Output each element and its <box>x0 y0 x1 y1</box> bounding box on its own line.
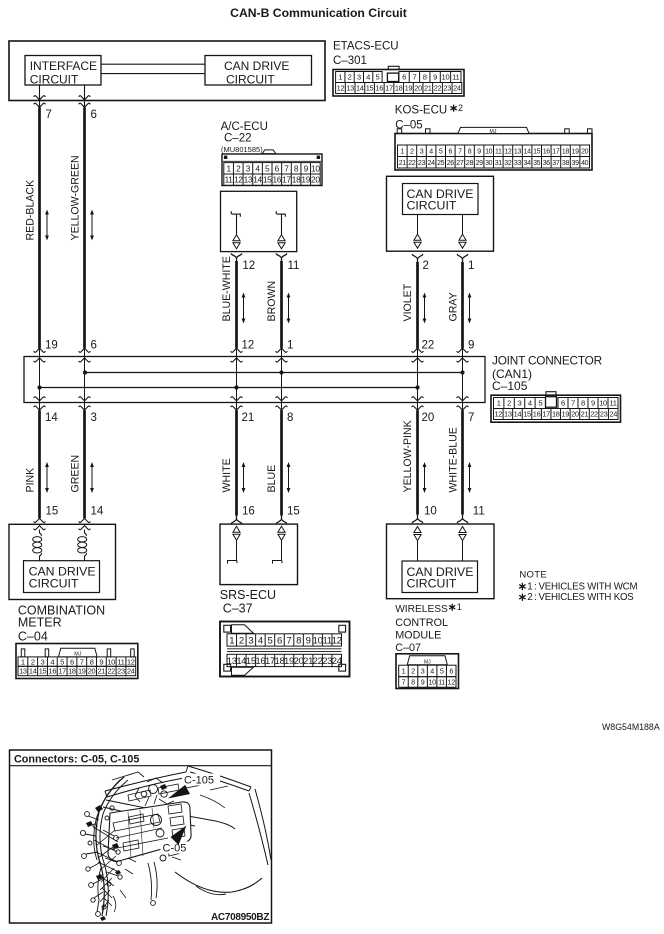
svg-text:9: 9 <box>477 148 481 155</box>
svg-text:KOS-ECU: KOS-ECU <box>395 105 447 117</box>
svg-text:34: 34 <box>524 160 532 167</box>
svg-text:6: 6 <box>70 657 74 666</box>
svg-text:28: 28 <box>466 160 474 167</box>
svg-text:3: 3 <box>357 73 361 82</box>
svg-text:17: 17 <box>58 667 66 676</box>
svg-text:7: 7 <box>571 399 575 408</box>
svg-text:5: 5 <box>375 73 379 82</box>
svg-text:8: 8 <box>90 657 94 666</box>
svg-text:METER: METER <box>18 616 62 630</box>
svg-text:12: 12 <box>337 84 345 93</box>
svg-text:19: 19 <box>301 175 310 185</box>
svg-text:2: 2 <box>239 635 244 646</box>
svg-text:19: 19 <box>78 667 86 676</box>
svg-text:23: 23 <box>600 410 608 419</box>
svg-text:2: 2 <box>236 163 241 173</box>
svg-text:11: 11 <box>438 678 445 687</box>
svg-text:12: 12 <box>242 340 255 352</box>
svg-text:22: 22 <box>434 84 442 93</box>
svg-text:8: 8 <box>296 635 301 646</box>
svg-text:2: 2 <box>507 399 511 408</box>
svg-text:20: 20 <box>571 410 579 419</box>
svg-text:WHITE: WHITE <box>221 458 233 492</box>
svg-text:10: 10 <box>485 148 493 155</box>
svg-text:17: 17 <box>542 410 550 419</box>
svg-text:14: 14 <box>253 175 262 185</box>
svg-text:4: 4 <box>255 163 260 173</box>
svg-text:9: 9 <box>306 635 311 646</box>
svg-text:WIRELESS: WIRELESS <box>395 604 448 615</box>
svg-text:(MU801585): (MU801585) <box>221 145 263 154</box>
svg-text:16: 16 <box>255 656 265 667</box>
svg-text:12: 12 <box>242 260 255 272</box>
svg-text:14: 14 <box>236 656 246 667</box>
svg-text:1: 1 <box>338 73 342 82</box>
svg-text:11: 11 <box>323 635 332 646</box>
svg-text:JOINT CONNECTOR: JOINT CONNECTOR <box>492 354 602 368</box>
svg-text:8: 8 <box>294 163 299 173</box>
svg-text:35: 35 <box>533 160 541 167</box>
svg-text:BLUE: BLUE <box>266 465 278 493</box>
svg-text:14: 14 <box>45 412 58 424</box>
svg-text:5: 5 <box>60 657 64 666</box>
svg-text:14: 14 <box>524 148 532 155</box>
svg-text:A/C-ECU: A/C-ECU <box>221 121 268 133</box>
svg-text:7: 7 <box>412 73 416 82</box>
svg-text:10: 10 <box>311 163 320 173</box>
svg-text:11: 11 <box>495 148 502 155</box>
svg-text:3: 3 <box>421 667 425 676</box>
svg-text:13: 13 <box>244 175 253 185</box>
svg-text:16: 16 <box>375 84 383 93</box>
svg-text:3: 3 <box>248 635 253 646</box>
svg-text:5: 5 <box>538 399 542 408</box>
svg-text:9: 9 <box>421 678 425 687</box>
svg-text:7: 7 <box>46 109 52 121</box>
svg-text:10: 10 <box>428 678 436 687</box>
svg-text:26: 26 <box>447 160 455 167</box>
svg-text:16: 16 <box>543 148 551 155</box>
svg-text:9: 9 <box>99 657 103 666</box>
svg-text:6: 6 <box>91 109 97 121</box>
svg-text:33: 33 <box>514 160 522 167</box>
svg-text:15: 15 <box>39 667 47 676</box>
svg-text:2: 2 <box>348 73 352 82</box>
svg-text:18: 18 <box>395 84 403 93</box>
svg-text:32: 32 <box>504 160 512 167</box>
svg-text:18: 18 <box>292 175 301 185</box>
svg-text:11: 11 <box>452 73 459 82</box>
svg-text:14: 14 <box>29 667 37 676</box>
svg-text:11: 11 <box>117 657 124 666</box>
svg-text:BROWN: BROWN <box>266 281 278 322</box>
svg-text:25: 25 <box>437 160 445 167</box>
svg-text:13: 13 <box>19 667 27 676</box>
svg-text:2: 2 <box>31 657 35 666</box>
svg-text:6: 6 <box>275 163 280 173</box>
svg-text:CIRCUIT: CIRCUIT <box>29 576 79 590</box>
svg-text:C–37: C–37 <box>223 602 253 616</box>
svg-text:C–05: C–05 <box>395 120 423 132</box>
svg-text:22: 22 <box>408 160 416 167</box>
svg-text:C–105: C–105 <box>492 379 528 393</box>
svg-text:CIRCUIT: CIRCUIT <box>226 73 275 87</box>
svg-text:ETACS-ECU: ETACS-ECU <box>333 41 399 53</box>
svg-text:21: 21 <box>242 412 255 424</box>
svg-text:17: 17 <box>265 656 275 667</box>
svg-text:20: 20 <box>294 656 304 667</box>
svg-text:YELLOW-GREEN: YELLOW-GREEN <box>69 155 81 240</box>
svg-text:14: 14 <box>91 506 104 518</box>
svg-text:MJ: MJ <box>490 129 497 135</box>
svg-text:3: 3 <box>518 399 522 408</box>
svg-text:BLUE-WHITE: BLUE-WHITE <box>221 256 233 321</box>
svg-text:13: 13 <box>227 656 237 667</box>
svg-text:17: 17 <box>552 148 560 155</box>
svg-text:8: 8 <box>287 412 293 424</box>
svg-text:7: 7 <box>458 148 462 155</box>
svg-text:16: 16 <box>533 410 541 419</box>
svg-text:29: 29 <box>476 160 484 167</box>
svg-text:11: 11 <box>225 175 234 185</box>
svg-text:23: 23 <box>322 656 332 667</box>
svg-text:20: 20 <box>88 667 96 676</box>
svg-text:12: 12 <box>127 657 135 666</box>
svg-text:WHITE-BLUE: WHITE-BLUE <box>447 427 459 492</box>
svg-text:18: 18 <box>562 148 570 155</box>
svg-text:12: 12 <box>234 175 243 185</box>
svg-text:2: 2 <box>458 103 463 113</box>
svg-text:17: 17 <box>385 84 393 93</box>
svg-text:30: 30 <box>485 160 493 167</box>
svg-text:13: 13 <box>504 410 512 419</box>
svg-text:23: 23 <box>418 160 426 167</box>
svg-text:C-105: C-105 <box>184 775 214 787</box>
svg-text:PINK: PINK <box>24 468 36 493</box>
svg-text:22: 22 <box>422 340 435 352</box>
svg-text:39: 39 <box>572 160 580 167</box>
svg-text:1: 1 <box>229 635 234 646</box>
svg-text:15: 15 <box>523 410 531 419</box>
svg-text:MJ: MJ <box>424 659 431 665</box>
svg-text:7: 7 <box>80 657 84 666</box>
svg-text:1: 1 <box>401 148 405 155</box>
svg-text:5: 5 <box>265 163 270 173</box>
svg-text:19: 19 <box>562 410 570 419</box>
svg-text:8: 8 <box>423 73 427 82</box>
svg-text:7: 7 <box>287 635 292 646</box>
svg-text:20: 20 <box>311 175 320 185</box>
svg-text:19: 19 <box>405 84 413 93</box>
svg-text:RED-BLACK: RED-BLACK <box>24 180 36 241</box>
svg-text:20: 20 <box>581 148 589 155</box>
svg-text:24: 24 <box>332 656 342 667</box>
svg-text:24: 24 <box>609 410 617 419</box>
svg-text:13: 13 <box>514 148 522 155</box>
svg-text:14: 14 <box>356 84 364 93</box>
svg-text:19: 19 <box>572 148 580 155</box>
svg-text:C-05: C-05 <box>163 843 187 855</box>
svg-text:GREEN: GREEN <box>69 455 81 493</box>
svg-text:1: 1 <box>457 602 462 612</box>
svg-text:31: 31 <box>495 160 503 167</box>
svg-text:CAN-B Communication Circuit: CAN-B Communication Circuit <box>230 6 407 20</box>
svg-text:21: 21 <box>581 410 589 419</box>
svg-text:3: 3 <box>91 412 97 424</box>
svg-text:21: 21 <box>399 160 407 167</box>
svg-text:40: 40 <box>581 160 589 167</box>
svg-text:11: 11 <box>288 260 300 272</box>
svg-text:2: 2 <box>411 667 415 676</box>
svg-text:22: 22 <box>313 656 323 667</box>
svg-text:CIRCUIT: CIRCUIT <box>407 198 457 212</box>
svg-text:11: 11 <box>609 399 616 408</box>
svg-text:1: 1 <box>497 399 501 408</box>
svg-text:20: 20 <box>414 84 422 93</box>
svg-text:22: 22 <box>590 410 598 419</box>
svg-text:6: 6 <box>277 635 282 646</box>
svg-text:36: 36 <box>543 160 551 167</box>
svg-text:1: 1 <box>287 340 293 352</box>
svg-text:YELLOW-PINK: YELLOW-PINK <box>402 420 414 492</box>
svg-text:9: 9 <box>433 73 437 82</box>
svg-text:7: 7 <box>284 163 289 173</box>
svg-text:10: 10 <box>313 635 323 646</box>
svg-text:CIRCUIT: CIRCUIT <box>30 73 79 87</box>
svg-text:24: 24 <box>127 667 135 676</box>
svg-text:MODULE: MODULE <box>395 630 441 642</box>
svg-text:15: 15 <box>246 656 256 667</box>
svg-text:14: 14 <box>514 410 522 419</box>
svg-text:15: 15 <box>46 506 59 518</box>
svg-text:12: 12 <box>494 410 502 419</box>
svg-text:GRAY: GRAY <box>447 292 459 321</box>
svg-text:9: 9 <box>468 340 474 352</box>
svg-text:21: 21 <box>424 84 432 93</box>
svg-text:VIOLET: VIOLET <box>402 283 414 321</box>
svg-text:8: 8 <box>581 399 585 408</box>
svg-text:16: 16 <box>272 175 281 185</box>
svg-text:10: 10 <box>599 399 607 408</box>
svg-text:8: 8 <box>411 678 415 687</box>
svg-text:5: 5 <box>440 667 444 676</box>
svg-text:C–22: C–22 <box>224 133 252 145</box>
svg-text:37: 37 <box>552 160 560 167</box>
svg-text:12: 12 <box>504 148 512 155</box>
svg-text:6: 6 <box>91 340 97 352</box>
svg-text:7: 7 <box>468 412 474 424</box>
svg-text:17: 17 <box>282 175 291 185</box>
svg-text:CONTROL: CONTROL <box>395 617 448 629</box>
svg-text:3: 3 <box>246 163 251 173</box>
svg-text:19: 19 <box>284 656 294 667</box>
svg-text:INTERFACE: INTERFACE <box>30 59 97 73</box>
svg-text:1: 1 <box>226 163 231 173</box>
svg-text:7: 7 <box>402 678 406 687</box>
svg-text:2: 2 <box>410 148 414 155</box>
svg-text:12: 12 <box>448 678 456 687</box>
svg-text:10: 10 <box>442 73 450 82</box>
svg-text:15: 15 <box>366 84 374 93</box>
svg-text:11: 11 <box>473 506 485 518</box>
svg-text:6: 6 <box>402 73 406 82</box>
svg-text:15: 15 <box>263 175 272 185</box>
svg-text:10: 10 <box>107 657 115 666</box>
svg-text:3: 3 <box>420 148 424 155</box>
svg-text:24: 24 <box>428 160 436 167</box>
svg-text:24: 24 <box>453 84 461 93</box>
svg-text:4: 4 <box>430 667 434 676</box>
svg-text:1: 1 <box>21 657 25 666</box>
svg-text:2: 2 <box>423 260 429 272</box>
svg-text:1: 1 <box>468 260 474 272</box>
svg-text:18: 18 <box>274 656 284 667</box>
svg-text:4: 4 <box>528 399 532 408</box>
svg-text:6: 6 <box>561 399 565 408</box>
svg-text:15: 15 <box>287 506 300 518</box>
svg-text:Connectors: C-05, C-105: Connectors: C-05, C-105 <box>14 753 139 765</box>
svg-text:1 : VEHICLES WITH WCM: 1 : VEHICLES WITH WCM <box>527 581 637 592</box>
svg-text:4: 4 <box>429 148 433 155</box>
svg-text:18: 18 <box>552 410 560 419</box>
svg-text:21: 21 <box>98 667 106 676</box>
svg-text:CIRCUIT: CIRCUIT <box>407 577 457 591</box>
svg-text:10: 10 <box>424 506 437 518</box>
svg-text:9: 9 <box>304 163 309 173</box>
svg-text:C–04: C–04 <box>18 630 48 644</box>
svg-text:NOTE: NOTE <box>519 569 547 580</box>
svg-text:16: 16 <box>49 667 57 676</box>
svg-text:15: 15 <box>533 148 541 155</box>
svg-text:19: 19 <box>45 340 58 352</box>
svg-text:5: 5 <box>439 148 443 155</box>
svg-text:23: 23 <box>117 667 125 676</box>
svg-text:23: 23 <box>443 84 451 93</box>
svg-text:W8G54M188A: W8G54M188A <box>602 722 660 732</box>
svg-text:27: 27 <box>456 160 464 167</box>
svg-text:C–07: C–07 <box>395 642 421 654</box>
svg-text:AC708950BZ: AC708950BZ <box>211 912 269 923</box>
svg-text:C–301: C–301 <box>333 55 367 67</box>
svg-text:20: 20 <box>422 412 435 424</box>
svg-text:4: 4 <box>258 635 263 646</box>
svg-text:12: 12 <box>332 635 342 646</box>
svg-text:1: 1 <box>402 667 406 676</box>
svg-text:5: 5 <box>267 635 272 646</box>
svg-text:38: 38 <box>562 160 570 167</box>
svg-text:3: 3 <box>41 657 45 666</box>
svg-text:4: 4 <box>50 657 54 666</box>
svg-text:8: 8 <box>468 148 472 155</box>
svg-text:6: 6 <box>449 667 453 676</box>
svg-text:21: 21 <box>303 656 313 667</box>
svg-text:SRS-ECU: SRS-ECU <box>220 588 276 602</box>
svg-text:CAN DRIVE: CAN DRIVE <box>224 59 289 73</box>
svg-text:9: 9 <box>591 399 595 408</box>
svg-text:4: 4 <box>366 73 370 82</box>
svg-text:13: 13 <box>346 84 354 93</box>
svg-text:2 : VEHICLES WITH KOS: 2 : VEHICLES WITH KOS <box>527 592 634 603</box>
svg-text:22: 22 <box>107 667 115 676</box>
svg-text:18: 18 <box>68 667 76 676</box>
svg-text:6: 6 <box>449 148 453 155</box>
svg-text:16: 16 <box>242 506 255 518</box>
